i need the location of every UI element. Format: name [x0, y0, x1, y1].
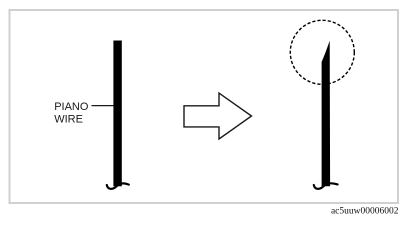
leader line from label to wire — [92, 105, 114, 107]
wire break squiggle right — [314, 183, 338, 189]
svg-text:WIRE: WIRE — [54, 114, 83, 126]
dashed circle highlight — [290, 20, 354, 84]
svg-text:PIANO: PIANO — [54, 101, 89, 113]
svg-text:ac5uuw00006002: ac5uuw00006002 — [331, 207, 399, 217]
block arrow pointing right — [184, 93, 252, 139]
piano wire right (sharpened tip) — [322, 41, 331, 187]
frame border — [10, 10, 399, 203]
wire break squiggle left — [107, 183, 129, 188]
piano wire left (unsharpened) — [113, 41, 121, 187]
